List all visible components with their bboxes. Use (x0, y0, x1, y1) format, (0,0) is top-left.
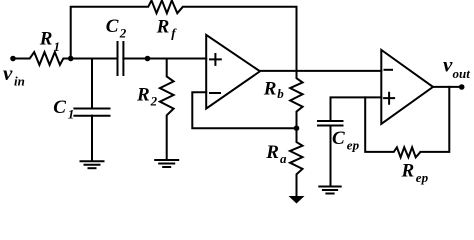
svg-text:R: R (263, 79, 277, 100)
svg-text:out: out (453, 66, 471, 81)
svg-text:a: a (280, 151, 287, 166)
svg-text:2: 2 (119, 26, 127, 41)
svg-text:C: C (53, 97, 66, 118)
svg-text:b: b (277, 86, 284, 101)
svg-text:R: R (265, 142, 279, 163)
svg-text:v: v (443, 53, 453, 77)
svg-text:ep: ep (416, 170, 429, 185)
svg-text:R: R (136, 84, 150, 105)
svg-text:C: C (332, 128, 345, 149)
svg-text:1: 1 (68, 107, 75, 122)
svg-text:R: R (156, 17, 170, 38)
svg-text:1: 1 (54, 39, 61, 54)
svg-text:v: v (3, 61, 13, 85)
svg-text:2: 2 (150, 93, 158, 108)
svg-text:in: in (14, 74, 25, 89)
svg-text:R: R (401, 161, 415, 182)
svg-text:ep: ep (347, 138, 360, 153)
svg-text:R: R (39, 28, 53, 49)
svg-text:C: C (106, 16, 119, 37)
